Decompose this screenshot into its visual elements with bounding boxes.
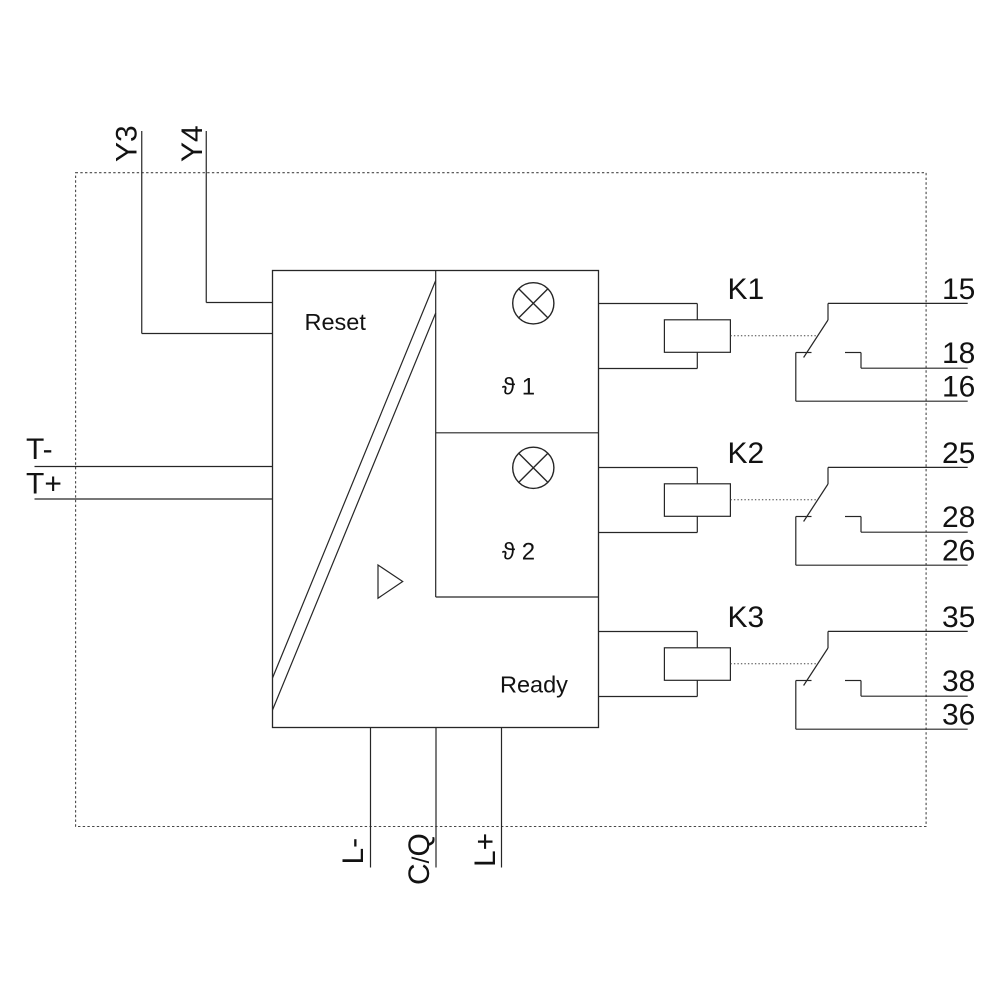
wire C/Q: [435, 728, 437, 868]
contact seat NC K1: [796, 352, 812, 354]
contact blade K3: [804, 648, 828, 686]
wire K2 coil stub bottom: [599, 532, 698, 534]
wire NO drop K3: [860, 681, 862, 697]
diagonal slash 2: [273, 313, 436, 710]
wire Y3 vertical: [141, 131, 143, 334]
wire T+: [35, 498, 273, 500]
actuator dotted link K2: [730, 499, 817, 501]
lamp H2 (circle with X): [513, 447, 554, 488]
amplifier triangle: [378, 565, 403, 598]
svg-text:26: 26: [942, 535, 975, 568]
wire NO drop K1: [860, 353, 862, 369]
wire terminal 26: [796, 564, 968, 566]
wire K1 coil vertical: [696, 304, 698, 369]
wire terminal 35: [828, 630, 968, 632]
wire NO drop K2: [860, 517, 862, 533]
svg-text:Ready: Ready: [500, 672, 568, 698]
divider line between sensor box 1 and 2: [436, 432, 599, 434]
wire common K1: [795, 353, 797, 402]
wire L+: [501, 728, 503, 868]
divider line between Reset section and sensor sections: [435, 271, 437, 598]
wire K1 coil stub bottom: [599, 368, 698, 370]
wire Y4 horizontal: [206, 302, 272, 304]
wire common K2: [795, 517, 797, 566]
wire K3 coil vertical: [696, 632, 698, 697]
contact seat NC K3: [796, 680, 812, 682]
svg-text:K3: K3: [728, 601, 765, 634]
svg-text:Reset: Reset: [305, 309, 367, 335]
relay K1 group: [599, 273, 976, 404]
wire terminal 16: [796, 400, 968, 402]
actuator dotted link K3: [730, 663, 817, 665]
wire T-: [35, 466, 273, 468]
wire terminal 18: [861, 367, 968, 369]
svg-text:L+: L+: [469, 833, 502, 867]
svg-text:T-: T-: [26, 433, 53, 466]
svg-text:35: 35: [942, 601, 975, 634]
wire K3 coil stub bottom: [599, 696, 698, 698]
wire contact drop K3: [827, 631, 829, 648]
relay coil K2: [664, 484, 730, 517]
svg-text:K2: K2: [728, 437, 765, 470]
svg-text:ϑ 1: ϑ 1: [502, 374, 535, 401]
svg-text:16: 16: [942, 371, 975, 404]
svg-text:L-: L-: [337, 838, 370, 865]
enclosure dashed border: [76, 173, 927, 827]
wire terminal 28: [861, 531, 968, 533]
wire L-: [370, 728, 372, 868]
wire K2 coil stub top: [599, 467, 698, 469]
svg-text:T+: T+: [26, 468, 62, 501]
contact blade K2: [804, 484, 828, 522]
svg-text:38: 38: [942, 665, 975, 698]
actuator dotted link K1: [730, 335, 817, 337]
svg-text:28: 28: [942, 501, 975, 534]
lamp H1 (circle with X): [513, 283, 554, 324]
wire Y3 horizontal: [142, 333, 273, 335]
svg-text:K1: K1: [728, 273, 765, 306]
contact seat NC K2: [796, 516, 812, 518]
svg-text:C/Q: C/Q: [403, 833, 436, 885]
wire common K3: [795, 681, 797, 730]
svg-text:25: 25: [942, 437, 975, 470]
wire K1 coil stub top: [599, 303, 698, 305]
svg-text:15: 15: [942, 273, 975, 306]
relay K2 group: [599, 437, 976, 568]
svg-text:Y3: Y3: [111, 125, 144, 162]
wire terminal 15: [828, 302, 968, 304]
contact seat NO K1: [845, 352, 861, 354]
svg-text:ϑ 2: ϑ 2: [502, 539, 535, 566]
svg-text:36: 36: [942, 699, 975, 732]
device block U1 outline: [273, 271, 599, 728]
wire K3 coil stub top: [599, 631, 698, 633]
wire contact drop K2: [827, 467, 829, 484]
wire terminal 38: [861, 695, 968, 697]
svg-text:18: 18: [942, 337, 975, 370]
bottom line of sensor box 2: [436, 596, 599, 598]
wire terminal 25: [828, 466, 968, 468]
wire Y4 vertical: [205, 131, 207, 303]
wire K2 coil vertical: [696, 468, 698, 533]
contact blade K1: [804, 320, 828, 358]
relay K3 group: [599, 601, 976, 732]
svg-text:Y4: Y4: [176, 125, 209, 162]
diagonal slash 1: [273, 281, 436, 679]
wire terminal 36: [796, 728, 968, 730]
contact seat NO K2: [845, 516, 861, 518]
wire contact drop K1: [827, 303, 829, 320]
contact seat NO K3: [845, 680, 861, 682]
relay coil K3: [664, 648, 730, 681]
relay coil K1: [664, 320, 730, 353]
